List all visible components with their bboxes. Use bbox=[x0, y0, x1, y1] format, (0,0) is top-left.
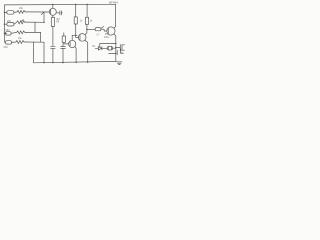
crystal X1 bbox=[106, 47, 108, 50]
resistor R7 (vertical box) bbox=[74, 17, 77, 24]
wire emitter to C4 bbox=[116, 47, 120, 49]
wire stub to R6 bbox=[63, 33, 65, 36]
node ground rail C3 bbox=[62, 62, 63, 63]
node emitter r1 bbox=[115, 43, 116, 44]
wire bus v4 drop to ground rail bbox=[43, 42, 45, 63]
microphone MIC1 bbox=[4, 11, 6, 13]
node collector branch bbox=[86, 29, 87, 30]
ground symbol bbox=[117, 62, 122, 65]
wire bus v2 bbox=[34, 22, 36, 32]
resistor R6 (vertical box) bbox=[62, 36, 65, 42]
inductor L1 (pill) bbox=[95, 28, 101, 31]
wire Q4 emitter down bbox=[114, 34, 116, 61]
microphone MIC3 bbox=[4, 32, 6, 34]
node ground rail Q3e bbox=[87, 62, 88, 63]
transistor Q1 bbox=[49, 8, 56, 15]
capacitor C3 plates bbox=[61, 46, 66, 48]
node rail Q1 bbox=[52, 4, 53, 5]
wire ground rail bbox=[34, 61, 117, 62]
wire L1 to Q4 base bbox=[101, 29, 107, 31]
wire row1 to Q1 base bbox=[26, 11, 49, 13]
wire R5 to C2 bbox=[52, 26, 54, 46]
wire row4 bbox=[25, 41, 44, 43]
diode D1 bbox=[98, 47, 101, 50]
capacitor C1 plates bbox=[60, 11, 62, 15]
wire base node down to C3 bbox=[62, 44, 64, 46]
wire Q2 collector up bbox=[72, 35, 77, 40]
wire branch to L1 bbox=[87, 28, 95, 30]
node rail R8 bbox=[86, 4, 87, 5]
node on left rail row2 bbox=[4, 24, 5, 25]
resistor R3 (row3 zigzag) bbox=[11, 31, 25, 34]
wire Q4 collector from rail bbox=[114, 4, 116, 28]
node emitter r2 bbox=[115, 47, 116, 48]
node R7 lead Q2c bbox=[75, 35, 76, 36]
svg-text:100n: 100n bbox=[104, 36, 110, 39]
wire battery rail bbox=[109, 53, 116, 55]
wire row3 to bus bbox=[26, 31, 41, 33]
resistor R5 (vertical box) bbox=[51, 17, 54, 26]
transistor Q2 bbox=[69, 40, 76, 47]
wire D1 to XTAL bbox=[102, 47, 107, 49]
svg-text:BF494: BF494 bbox=[109, 1, 118, 5]
wire XTAL to emitter line bbox=[112, 47, 115, 49]
wire Q3 collector up bbox=[85, 24, 87, 34]
resistor R1 (row1 zigzag) bbox=[14, 10, 26, 13]
wire D1 left stub bbox=[95, 47, 98, 49]
microphone MIC2 bbox=[4, 23, 6, 25]
resistor R8 (vertical box) bbox=[85, 17, 88, 24]
microphone MIC4 bbox=[5, 41, 11, 44]
svg-text:MIC: MIC bbox=[7, 20, 12, 23]
wire R8 from rail bbox=[86, 4, 88, 17]
node emitter r3 bbox=[115, 53, 116, 54]
capacitor C2 plates bbox=[51, 46, 56, 48]
svg-text:MIC: MIC bbox=[4, 46, 9, 49]
resistor R4 (row4 zigzag) bbox=[12, 41, 26, 44]
wire Q1 emitter down bbox=[52, 15, 54, 17]
arrow tap row1 bbox=[41, 12, 44, 14]
wire drop to D1 bbox=[99, 44, 101, 47]
wire row2 to bus bbox=[26, 21, 45, 23]
wire row4 drop to ground rail bbox=[33, 42, 35, 63]
wire feedback top bbox=[100, 43, 116, 45]
node ground rail C2 bbox=[52, 62, 53, 63]
node on left rail row3 bbox=[4, 33, 5, 34]
capacitor C4 bbox=[119, 45, 121, 51]
arrow tap row2 bbox=[21, 20, 23, 22]
resistor R2 (row2 zigzag) bbox=[14, 21, 26, 24]
wire Q1 right lead bbox=[56, 12, 59, 14]
transistor Q4 bbox=[107, 27, 115, 35]
wire C3 to ground rail bbox=[62, 48, 64, 62]
wire bus v1 bbox=[43, 12, 45, 22]
wire Q1 collector from rail bbox=[52, 5, 54, 9]
wire top supply rail bbox=[4, 3, 115, 6]
wire Q2 emitter to ground rail bbox=[75, 47, 76, 63]
wire C2 to ground rail bbox=[52, 48, 54, 62]
wire R7 from rail bbox=[75, 5, 77, 17]
node bus row2 bbox=[43, 22, 44, 23]
battery B1 bbox=[116, 50, 118, 54]
node rail R7 bbox=[75, 4, 76, 5]
wire R7 to Q3 base bbox=[76, 24, 79, 37]
node on left rail row1 bbox=[4, 12, 5, 13]
transistor Q3 bbox=[78, 34, 86, 42]
wire left input rail bbox=[3, 5, 5, 43]
wire R6 to Q2 base bbox=[64, 42, 69, 44]
node ground rail bus bbox=[43, 62, 44, 63]
node ground rail Q2e bbox=[75, 62, 76, 63]
svg-text:MIC: MIC bbox=[6, 29, 11, 32]
wire Q3 emitter to ground rail bbox=[85, 40, 88, 62]
wire bus v3 bbox=[40, 32, 42, 42]
arrow tap L1 bbox=[101, 26, 103, 28]
